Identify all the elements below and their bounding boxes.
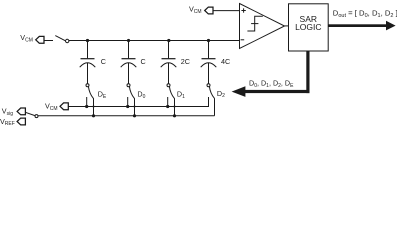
- svg-text:Dout = [ D0, D1, D2 ]: Dout = [ D0, D1, D2 ]: [333, 8, 397, 19]
- switch D1 circle: [167, 84, 170, 87]
- capacitor 4C (column 4): [201, 41, 217, 84]
- switch D2 circle: [207, 84, 210, 87]
- svg-text:VREF: VREF: [0, 117, 15, 127]
- wire Vsig bus (bottom): [38, 115, 214, 117]
- svg-text:DE: DE: [98, 90, 107, 100]
- svg-text:Vsig: Vsig: [2, 107, 13, 117]
- switch S_sample contact circle: [66, 39, 69, 42]
- switch Vsig/VREF contact circle: [35, 115, 38, 118]
- svg-text:C: C: [101, 57, 106, 66]
- switch D0 blade: [129, 86, 134, 98]
- switch DE circle: [86, 84, 89, 87]
- comparator hysteresis symbol: [247, 16, 262, 31]
- wire VCM to switch: [44, 40, 53, 42]
- comparator plus sign: [241, 10, 245, 12]
- wire D0 contact to Vsig bus: [134, 98, 136, 116]
- switch S_sample blade: [55, 36, 65, 41]
- node dot VCM stub column 1: [85, 105, 88, 108]
- comparator U1 body: [240, 4, 285, 49]
- comparator minus sign: [241, 39, 245, 41]
- wire Dout arrowhead: [386, 21, 396, 31]
- capacitor C (column 2): [121, 41, 137, 84]
- svg-text:4C: 4C: [221, 57, 230, 66]
- port VCM bottom: [60, 103, 68, 110]
- wire SAR feedback vertical (thick): [306, 51, 309, 93]
- node junction dot cap4 top: [207, 39, 210, 42]
- wire D2 contact (right end of Vsig bus): [214, 98, 216, 116]
- svg-text:LOGIC: LOGIC: [295, 22, 321, 32]
- svg-text:D2: D2: [217, 89, 225, 99]
- capacitor C (column 1): [80, 41, 96, 84]
- switch Vsig/VREF blade: [25, 112, 35, 115]
- node junction dot cap3 top: [167, 39, 170, 42]
- svg-text:D1: D1: [177, 90, 185, 100]
- switch D2 blade: [209, 86, 214, 98]
- wire VCM stub column 1: [86, 97, 88, 107]
- wire D1 contact to Vsig bus: [174, 98, 176, 116]
- wire DE contact to Vsig bus: [93, 98, 95, 116]
- wire VCM bus (bottom): [68, 97, 208, 107]
- wire top bus (comparator inverting input bus): [69, 40, 240, 42]
- wire VCM to comparator plus input: [213, 10, 240, 12]
- svg-text:2C: 2C: [181, 57, 190, 66]
- wire SAR feedback arrowhead: [232, 86, 246, 97]
- node dot D0 on Vsig bus: [133, 114, 136, 117]
- svg-text:VCM: VCM: [20, 33, 33, 43]
- node junction dot cap2 top: [127, 39, 130, 42]
- svg-text:D0: D0: [137, 90, 145, 100]
- node junction dot cap1 top: [86, 39, 89, 42]
- port VREF: [17, 118, 25, 125]
- port Vsig: [17, 108, 25, 115]
- SAR logic block U2: [289, 4, 329, 51]
- node bump D0 crossing VCM bus: [133, 105, 135, 107]
- node bump DE crossing VCM bus: [92, 105, 94, 107]
- wire Dout arrow shaft: [328, 24, 387, 27]
- node dot VCM stub column 2: [126, 105, 129, 108]
- comparator plus sign vertical: [243, 8, 245, 12]
- switch D1 blade: [169, 86, 174, 98]
- node bump D1 crossing VCM bus: [173, 105, 175, 107]
- switch D0 circle: [127, 84, 130, 87]
- node dot VCM stub column 3: [166, 105, 169, 108]
- svg-text:D0, D1, D2, DE: D0, D1, D2, DE: [249, 78, 294, 88]
- wire SAR feedback horizontal (thick): [245, 90, 310, 93]
- comparator hysteresis tick: [251, 23, 258, 25]
- capacitor 2C (column 3): [161, 41, 177, 84]
- port VCM top-middle: [205, 7, 213, 14]
- port VCM top-left: [36, 36, 44, 43]
- wire VCM stub column 3: [167, 97, 169, 107]
- switch DE blade: [88, 86, 93, 98]
- node dot D1 on Vsig bus: [173, 114, 176, 117]
- wire comparator output to SAR logic: [285, 25, 289, 27]
- node dot DE on Vsig bus: [92, 114, 95, 117]
- svg-text:C: C: [141, 57, 146, 66]
- svg-text:VCM: VCM: [45, 102, 58, 112]
- svg-text:VCM: VCM: [189, 4, 202, 14]
- wire VCM stub column 2: [127, 97, 129, 107]
